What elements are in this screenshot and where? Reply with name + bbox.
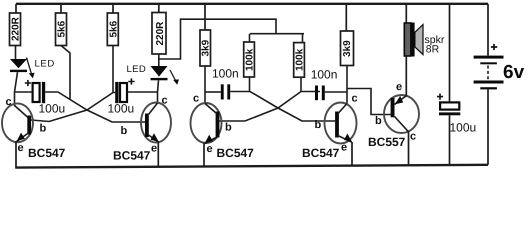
svg-text:220R: 220R bbox=[11, 16, 22, 41]
svg-text:c: c bbox=[162, 95, 168, 107]
svg-text:100u: 100u bbox=[108, 102, 135, 116]
wire: 100n#2 left plate to Q3 base (crossing diagonal) bbox=[219, 92, 320, 122]
wire: speaker to Q5 emitter bbox=[405, 56, 407, 96]
svg-text:c: c bbox=[6, 96, 12, 108]
svg-text:b: b bbox=[375, 115, 382, 127]
wire: battery - to 0V rail bbox=[487, 89, 489, 164]
wire: 100k #1 bottom tail bbox=[249, 77, 251, 91]
wire: rail drop to 3k9 #2 bbox=[345, 4, 347, 32]
svg-text:b: b bbox=[121, 125, 128, 137]
resistor 220R (left) bbox=[10, 13, 22, 46]
wire: 5k6 #2 bottom tail to Q1 base node bbox=[112, 46, 114, 93]
capacitor C2 100u polarity + bbox=[128, 78, 134, 84]
svg-text:5k6: 5k6 bbox=[108, 20, 119, 37]
svg-text:220R: 220R bbox=[155, 21, 166, 46]
svg-text:b: b bbox=[315, 119, 322, 131]
capacitor 100u #3 bbox=[439, 102, 460, 115]
svg-text:5k6: 5k6 bbox=[57, 20, 68, 37]
svg-text:6v: 6v bbox=[503, 62, 525, 83]
svg-text:100k: 100k bbox=[245, 48, 256, 71]
battery 6v bbox=[474, 56, 504, 90]
LED 1 light arrow bbox=[27, 58, 35, 79]
capacitor 100n #2 bbox=[315, 86, 325, 101]
wire: Q4 emitter to 0V rail bbox=[351, 142, 353, 167]
battery polarity + bbox=[491, 44, 497, 50]
svg-text:100n: 100n bbox=[212, 67, 239, 81]
wire: 100k feed line from LED2 anode node bbox=[159, 19, 304, 59]
transistor Q5 BC557 bbox=[384, 95, 419, 133]
wire: 100n#1 right plate to Q4 base (crossing diagonal) bbox=[230, 92, 335, 122]
resistor 3k9 #1 bbox=[200, 30, 212, 66]
svg-text:b: b bbox=[40, 123, 47, 135]
svg-text:100k: 100k bbox=[295, 48, 306, 71]
wire: rail drop to 220R #2 bbox=[158, 4, 160, 13]
wire: rail drop to 3k9 #1 bbox=[204, 4, 206, 31]
transistor Q1 BC547 bbox=[2, 103, 33, 142]
wire: Q3 emitter to 0V rail bbox=[203, 143, 205, 168]
svg-text:e: e bbox=[207, 143, 213, 155]
transistor Q3 BC547 bbox=[191, 103, 222, 144]
wire: 3k9#1 node to 100n#1 left plate bbox=[205, 91, 221, 93]
wire: Q1 emitter to 0V rail bbox=[15, 142, 17, 168]
wire: rail drop to 5k6 #2 bbox=[112, 4, 114, 14]
svg-text:e: e bbox=[18, 142, 24, 154]
wire: 100k #2 bottom tail bbox=[300, 77, 302, 91]
svg-text:LED: LED bbox=[127, 64, 147, 75]
svg-text:e: e bbox=[341, 142, 347, 154]
svg-text:3k9: 3k9 bbox=[342, 40, 353, 57]
svg-text:LED: LED bbox=[35, 59, 55, 70]
wire: bus drop to 100k #1 bbox=[249, 34, 251, 43]
wire: Q4 collector to Q5 base bbox=[347, 89, 391, 115]
wire: bus drop to 100k #2 bbox=[302, 34, 304, 43]
capacitor C2 100u bbox=[115, 82, 127, 103]
wire: Q5 collector to 0V rail bbox=[408, 132, 410, 166]
wire: C2 right plate to LED2 cathode / Q2 collector bbox=[127, 80, 158, 103]
wire: rail right corner down to battery + bbox=[487, 4, 489, 56]
capacitor 100u #3 polarity + bbox=[437, 94, 443, 100]
LED 1 bbox=[10, 46, 27, 73]
svg-text:8R: 8R bbox=[426, 44, 440, 56]
wire: 5k6 #1 bottom tail to crossing wire bbox=[61, 46, 70, 99]
svg-text:BC547: BC547 bbox=[217, 146, 255, 160]
resistor 100k #2 bbox=[294, 43, 306, 78]
svg-text:100u: 100u bbox=[450, 121, 477, 135]
svg-text:BC547: BC547 bbox=[302, 146, 340, 160]
wire: Q1 base to C2 left plate (crossing diagonal) bbox=[31, 93, 115, 122]
wire: C1 right plate to Q2 base (crossing diagonal) bbox=[45, 92, 145, 122]
svg-text:b: b bbox=[225, 122, 232, 134]
resistor 5k6 #2 bbox=[107, 13, 119, 46]
resistor 3k9 #2 bbox=[341, 31, 354, 66]
wire: Q2 emitter to 0V rail bbox=[157, 142, 159, 168]
wire: 3k9 #2 bottom to Q4 collector bbox=[346, 66, 348, 104]
wire: rail down to speaker bbox=[405, 4, 407, 24]
wire: rail drop to 5k6 #1 bbox=[60, 4, 62, 14]
wire: 100u #3 to 0V rail bbox=[449, 115, 451, 165]
svg-text:100u: 100u bbox=[39, 102, 66, 116]
svg-text:BC557: BC557 bbox=[368, 135, 406, 149]
capacitor C1 100u bbox=[33, 82, 46, 103]
svg-text:c: c bbox=[352, 93, 358, 105]
svg-text:BC547: BC547 bbox=[113, 149, 151, 163]
wire: 100n#2 right plate to Q4 collector bbox=[325, 91, 347, 93]
svg-text:3k9: 3k9 bbox=[201, 39, 212, 56]
positive supply rail (top) bbox=[16, 3, 488, 5]
wire: rail drop to R1 bbox=[15, 4, 17, 14]
resistor 220R (second) bbox=[152, 13, 166, 55]
LED 2 bbox=[151, 54, 168, 80]
0V rail (bottom) bbox=[15, 165, 488, 168]
svg-text:e: e bbox=[396, 81, 402, 93]
wire: rail down to 100u #3 bbox=[449, 4, 451, 103]
resistor 5k6 #1 bbox=[56, 13, 68, 46]
svg-text:100n: 100n bbox=[311, 68, 338, 82]
svg-text:BC547: BC547 bbox=[28, 146, 66, 160]
svg-text:c: c bbox=[410, 131, 416, 143]
capacitor 100n #1 bbox=[221, 84, 230, 99]
svg-text:e: e bbox=[151, 143, 157, 155]
LED 2 light arrow bbox=[170, 70, 179, 85]
transistor Q4 BC547 bbox=[325, 103, 357, 144]
wire: LED1 cathode down to Q1 collector, node to C1 bbox=[15, 72, 33, 106]
resistor 100k #1 bbox=[244, 42, 256, 77]
wire: 3k9 #1 bottom to Q3 collector node bbox=[204, 66, 206, 104]
transistor Q2 BC547 bbox=[141, 103, 171, 143]
speaker bbox=[404, 23, 423, 57]
capacitor C1 100u polarity + bbox=[25, 80, 31, 86]
svg-text:c: c bbox=[193, 93, 199, 105]
